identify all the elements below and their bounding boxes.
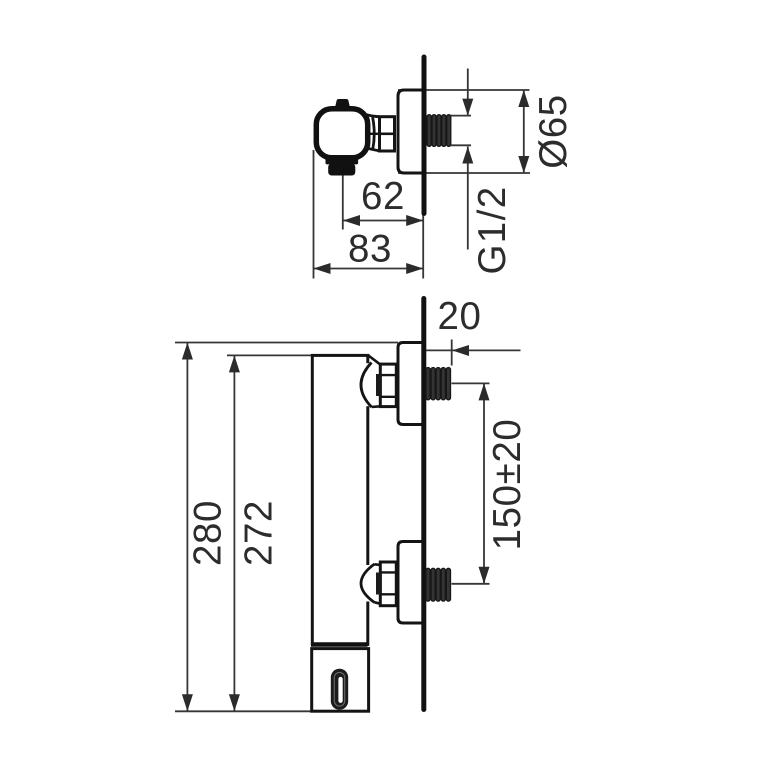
extension line 272 top (collinear with body top): [227, 354, 311, 356]
dimension 150±20 line: [483, 383, 485, 583]
extension line thread bottom (G1/2): [451, 144, 471, 146]
flange lower (bottom view): [398, 542, 424, 624]
upper hex nut (bottom view): [380, 364, 396, 407]
dimension 280 down arrow: [182, 694, 193, 711]
extension line thread top (G1/2): [451, 115, 471, 117]
dimension Ø65 down arrow: [518, 156, 529, 173]
dimension Ø65 line: [523, 90, 525, 173]
lower cone dark bar: [376, 573, 382, 595]
flange upper (bottom view): [398, 343, 424, 425]
svg-text:G1/2: G1/2: [471, 185, 514, 274]
dimension 83 left arrow: [314, 263, 331, 274]
wall extension line (thin, below wall): [422, 214, 424, 279]
dimension Ø65 up arrow: [518, 90, 529, 107]
lower cone (connection, bottom view): [361, 564, 381, 604]
dimension 280 up arrow: [182, 343, 193, 360]
dimension 62 right arrow: [406, 215, 423, 226]
svg-text:62: 62: [361, 175, 405, 218]
extension line 150±20 upper: [452, 382, 490, 384]
knob (thermostat handle, top view): [316, 109, 367, 158]
dimension 280 line: [186, 343, 188, 712]
dimension 83 line: [314, 268, 424, 270]
extension line 62 left (from handle): [342, 176, 344, 230]
flange (wall rosette, top view): [398, 90, 424, 173]
extension line bottom (shared 280/272): [175, 710, 312, 712]
body bottom thick joint line: [311, 642, 368, 647]
svg-text:272: 272: [238, 500, 281, 566]
dimension 83 right arrow: [406, 263, 423, 274]
svg-text:Ø65: Ø65: [532, 94, 575, 169]
upper threaded pipe (bottom view): [426, 368, 451, 400]
lower hex nut (bottom view): [380, 562, 396, 606]
neck between knob and hex nut (top view): [364, 114, 379, 151]
svg-text:280: 280: [186, 500, 229, 566]
knob top tab: [335, 99, 350, 108]
knob handle block (black): [328, 164, 355, 176]
dimension G1/2 upper line: [467, 69, 469, 116]
lower threaded pipe (bottom view): [426, 568, 451, 601]
extension line flange bottom / Ø65 bottom: [398, 172, 530, 174]
svg-text:20: 20: [437, 295, 481, 338]
dimension 272 down arrow: [229, 694, 240, 711]
spout slot outer capsule (filled): [331, 669, 348, 710]
extension line 150±20 lower: [452, 583, 490, 585]
extension line flange top / Ø65 top: [398, 89, 530, 91]
dimension 150±20 up arrow: [479, 383, 490, 400]
bottom spout box: [312, 649, 369, 712]
svg-text:83: 83: [348, 228, 392, 271]
dimension 272 line: [233, 355, 235, 711]
upper cone dark bar: [376, 374, 382, 396]
dimension 62 left arrow: [343, 215, 360, 226]
spout slot mid sheen ring: [334, 672, 344, 706]
dimension 272 up arrow: [229, 355, 240, 372]
neck middle line: [370, 133, 380, 135]
dimension 20 line: [426, 349, 521, 351]
wall line (top view): [422, 57, 427, 214]
hex nut middle line: [380, 133, 395, 136]
knob handle collar (black): [326, 158, 359, 164]
hex nut (top view): [380, 117, 395, 151]
dimension G1/2 lower line: [467, 147, 469, 250]
mixer body (bar): [312, 355, 368, 644]
threaded pipe (top view): [427, 115, 451, 147]
dimension 20 left arrow: [452, 345, 469, 356]
upper cone (connection, bottom view): [361, 355, 381, 407]
wall line (bottom view): [421, 299, 426, 710]
svg-text:150±20: 150±20: [486, 419, 529, 551]
spout slot inner white slit: [338, 677, 342, 703]
extension line 280 top (collinear with flange top): [175, 342, 398, 344]
dimension 150±20 down arrow: [479, 567, 490, 584]
dimension 62 line: [343, 220, 423, 222]
dimension 20 tick (thread end extension): [451, 340, 453, 366]
dimension G1/2 up arrow: [462, 147, 473, 164]
extension line 83 left (from knob): [313, 150, 315, 279]
dimension G1/2 down arrow: [462, 99, 473, 116]
